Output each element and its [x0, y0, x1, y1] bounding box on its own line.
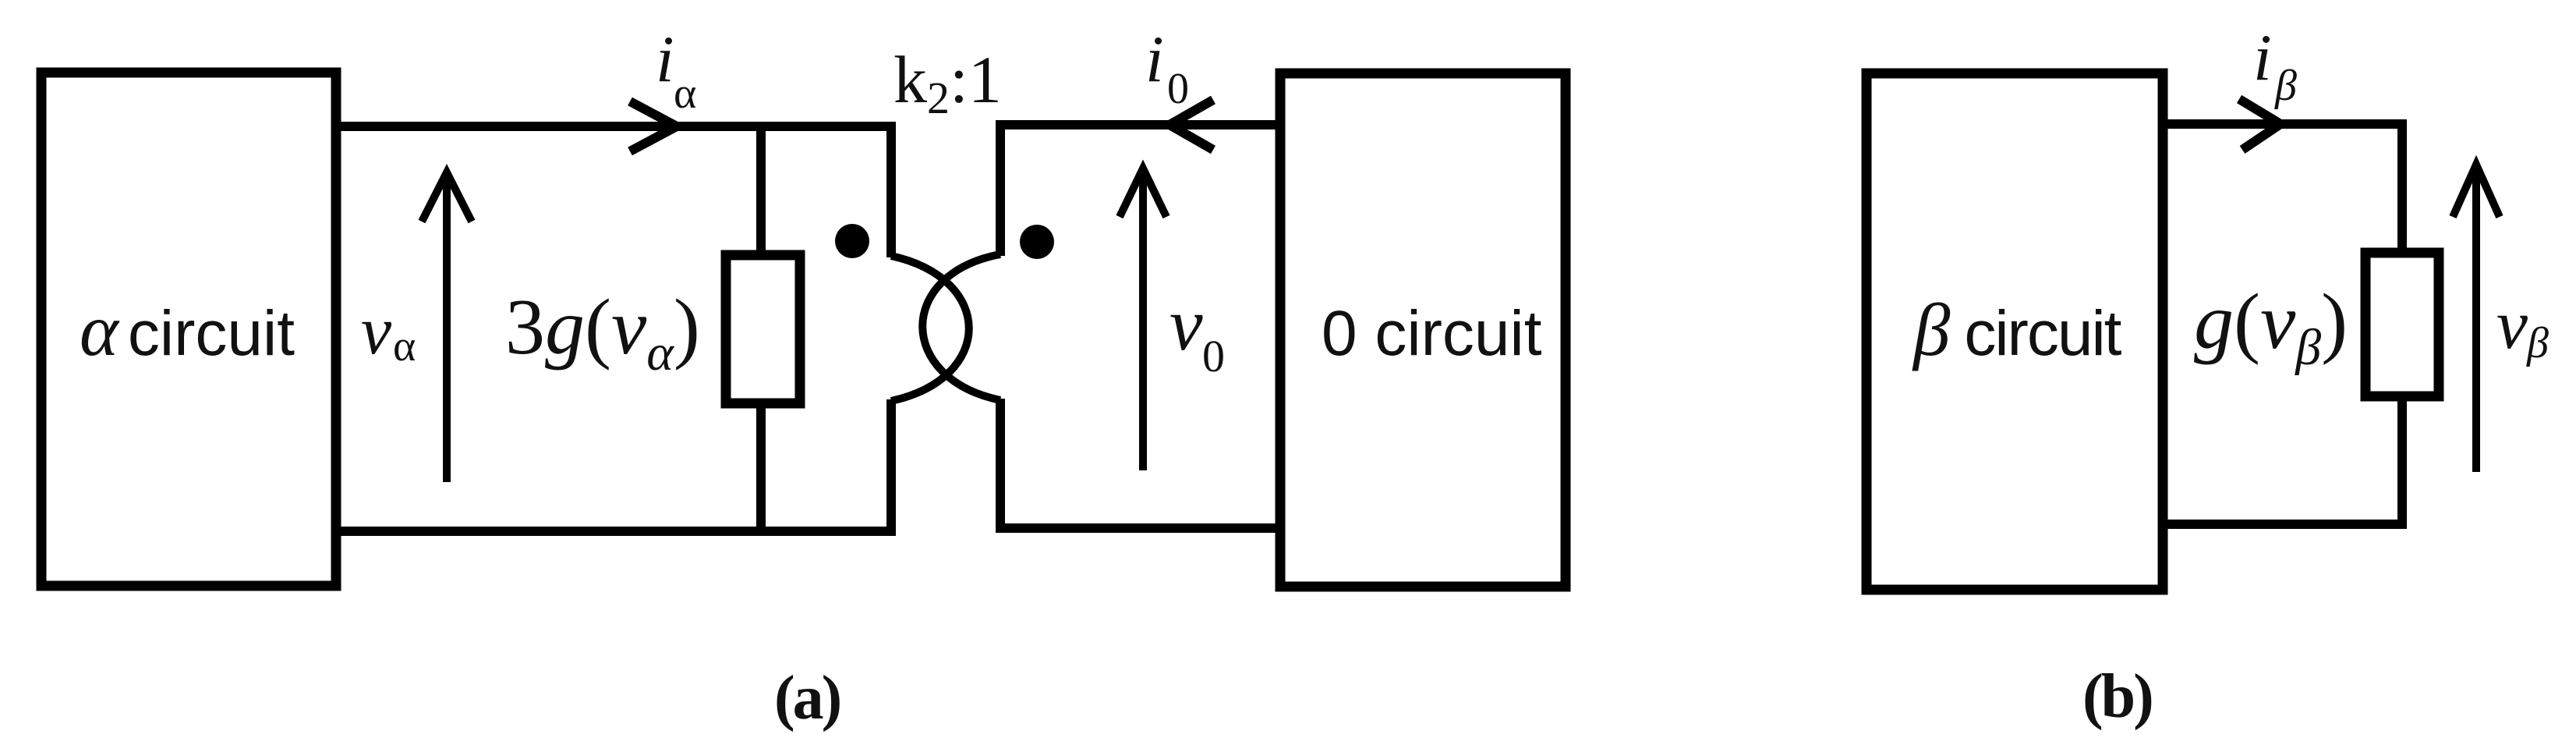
svg-text:i: i	[1145, 23, 1164, 96]
wire top (beta side) with corner	[2163, 124, 2402, 253]
svg-text:βcircuit: βcircuit	[1912, 289, 2122, 371]
alpha circuit box	[41, 73, 336, 586]
wire top-left (alpha side)	[336, 126, 891, 257]
arrowhead i_beta	[2239, 99, 2281, 150]
voltage arrow v_0	[1139, 171, 1147, 470]
svg-text:(b): (b)	[2082, 662, 2152, 731]
resistor g(v_beta)	[2365, 253, 2439, 396]
svg-text:0: 0	[1167, 65, 1189, 113]
svg-text:αcircuit: αcircuit	[80, 289, 295, 371]
svg-text:β: β	[2274, 62, 2297, 110]
wire bottom-left (alpha side)	[336, 399, 891, 531]
resistor 3g(v_alpha)	[726, 255, 800, 403]
svg-text:g(vβ): g(vβ)	[2194, 278, 2348, 376]
svg-text:i: i	[2253, 21, 2272, 94]
voltage arrow v_beta	[2472, 167, 2480, 472]
arrowhead i_alpha	[630, 101, 677, 151]
wire top-right (0 side)	[1000, 125, 1279, 256]
dot secondary	[1020, 225, 1054, 259]
resistor stem top	[756, 126, 766, 257]
voltage arrow v_alpha	[443, 175, 451, 482]
resistor stem bottom	[756, 403, 766, 531]
beta circuit box	[1867, 73, 2163, 590]
svg-text:0: 0	[1202, 331, 1225, 381]
transformer winding curve right-to-right (bulge left)	[922, 254, 1000, 400]
wire bottom (beta side) with resistor stem	[2163, 396, 2402, 524]
0 circuit box	[1280, 73, 1566, 587]
svg-text:(a): (a)	[774, 664, 840, 732]
svg-text:i: i	[656, 23, 674, 96]
dot primary	[835, 224, 869, 258]
svg-text:v: v	[2496, 286, 2528, 364]
svg-text:α: α	[674, 69, 696, 118]
arrowhead i_0 (pointing left)	[1169, 100, 1213, 150]
svg-text:v: v	[1169, 282, 1203, 366]
svg-text:v: v	[361, 293, 392, 369]
svg-text:β: β	[2526, 319, 2549, 367]
svg-text:α: α	[393, 322, 416, 371]
wire bottom-right (0 side)	[1000, 399, 1279, 528]
svg-text:0 circuit: 0 circuit	[1322, 298, 1542, 369]
transformer winding curve left-to-left (bulge right)	[891, 256, 969, 401]
